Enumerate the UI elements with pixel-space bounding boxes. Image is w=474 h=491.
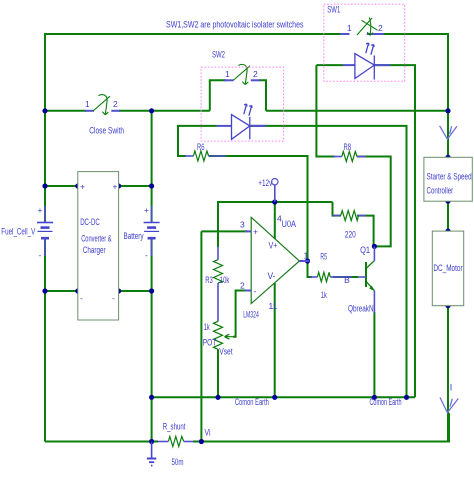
svg-text:1: 1 [225, 69, 230, 79]
ground symbol [147, 442, 156, 466]
photodiode LED of SW1 [343, 43, 390, 80]
node opamp output [305, 258, 310, 263]
transistor Q1 QbreakN [342, 245, 374, 313]
SW2 dashed enclosure [201, 67, 284, 141]
svg-text:SW2: SW2 [212, 50, 225, 60]
wire battery column lower to earth [151, 238, 153, 442]
resistor R6 [185, 142, 226, 161]
svg-text:V+: V+ [269, 241, 278, 251]
svg-text:1k: 1k [204, 322, 210, 332]
resistor R5 [310, 252, 342, 300]
node dcdc in+ [75, 183, 80, 188]
node earth battery column [149, 395, 154, 400]
switch SW2 contact [224, 64, 260, 84]
svg-text:10k: 10k [220, 275, 230, 285]
svg-text:Comon Earth: Comon Earth [235, 397, 269, 407]
wire left rail lower [44, 238, 46, 442]
wire +12v rail [218, 202, 333, 247]
battery Battery [124, 205, 160, 260]
wire R5 base row [333, 276, 358, 278]
wire SW2 LED cathode row [250, 126, 407, 397]
wire Q1 emitter to earth [373, 312, 375, 397]
svg-text:11: 11 [269, 301, 278, 311]
node dcdc out+ [116, 183, 121, 188]
wire right column starter to motor [447, 157, 449, 231]
svg-text:+: + [80, 182, 85, 192]
SW1 dashed enclosure [324, 4, 405, 81]
node earth pin11 [272, 395, 277, 400]
wire SW2 LED anode branch [178, 126, 217, 156]
svg-text:I: I [450, 382, 453, 392]
node Vi at R_shunt [199, 439, 204, 444]
node earth POT [215, 395, 220, 400]
resistor R3 vertical [205, 247, 229, 321]
wire SW1 LED cathode row [374, 65, 415, 397]
wire right column motor to bottom [447, 306, 449, 442]
svg-text:50m: 50m [172, 457, 184, 467]
svg-text:1: 1 [85, 99, 90, 109]
node starter box top [445, 155, 450, 160]
node earth Q1 emitter [372, 395, 377, 400]
wire bottom rail [45, 441, 158, 443]
svg-text:Close Swith: Close Swith [89, 126, 124, 136]
node dcdc out- [116, 288, 121, 293]
wire dc rail bottom segment A [45, 290, 78, 292]
svg-text:QbreakN: QbreakN [348, 303, 374, 313]
wire R6 to opamp output column [209, 156, 312, 277]
wire battery branch vertical [151, 111, 153, 186]
node battery bottom [149, 288, 154, 293]
svg-text:Vset: Vset [219, 347, 233, 357]
wire close-switch row left [45, 110, 86, 112]
switch Close Swith [85, 95, 124, 136]
svg-text:3: 3 [240, 220, 245, 230]
svg-text:Vi: Vi [205, 427, 211, 437]
svg-text:1: 1 [347, 23, 352, 33]
node starter box bottom [445, 199, 450, 204]
svg-text:Q1: Q1 [360, 245, 370, 255]
svg-text:Converter &: Converter & [81, 234, 111, 244]
svg-text:Starter & Speed: Starter & Speed [427, 172, 472, 182]
svg-text:R3: R3 [205, 275, 213, 285]
svg-text:Comon Earth: Comon Earth [370, 397, 402, 407]
wire battery top rail segment B [119, 185, 152, 187]
wire Vi sense column [200, 231, 202, 441]
wire right column above starter [447, 111, 449, 158]
wire common earth rail [152, 396, 415, 398]
svg-text:2: 2 [253, 69, 258, 79]
svg-text:Battery: Battery [124, 231, 144, 241]
wire SW2 left leg [210, 80, 226, 111]
svg-text:B: B [344, 275, 350, 285]
svg-text:Fuel_Cell_V: Fuel_Cell_V [1, 226, 35, 236]
node Q1 collector junction [372, 244, 377, 249]
resistor R_shunt [158, 422, 211, 467]
wire opamp pin11 to earth [274, 283, 276, 397]
wire top rail right segment to right column [384, 34, 448, 111]
wire 220 branch [333, 202, 342, 216]
svg-text:U0A: U0A [282, 219, 297, 229]
svg-text:-: - [39, 250, 42, 260]
svg-text:2: 2 [240, 281, 245, 291]
svg-text:LM324: LM324 [243, 309, 259, 319]
wire SW2 right leg row to right column [266, 110, 448, 112]
svg-text:Controller: Controller [427, 185, 454, 195]
block Starter & Speed Controller [424, 157, 472, 201]
block DC_Motor [432, 231, 463, 306]
wire opamp pin4 stub [274, 202, 276, 239]
svg-text:SW1,SW2 are photovoltaic isola: SW1,SW2 are photovoltaic isolater switch… [166, 20, 304, 30]
svg-text:-: - [80, 293, 83, 303]
wire R8 to Q1 collector column [357, 157, 391, 247]
block DC-DC Converter & Charger [78, 172, 119, 320]
svg-text:DC-DC: DC-DC [80, 217, 100, 227]
svg-text:2: 2 [113, 99, 118, 109]
svg-text:220: 220 [345, 229, 356, 239]
svg-text:+: + [38, 205, 43, 215]
node battery branch junction [149, 108, 154, 113]
svg-text:-: - [112, 293, 115, 303]
node motor bottom [445, 303, 450, 308]
wire opamp pin2 to POT wiper [233, 291, 246, 337]
svg-text:1: 1 [304, 251, 309, 261]
node bottom rail left of R_shunt [149, 439, 154, 444]
wire dc rail bottom segment B [119, 290, 152, 292]
svg-text:2: 2 [378, 23, 383, 33]
node battery top [149, 183, 154, 188]
wire battery top rail segment A [45, 185, 78, 187]
+12v power bubble [258, 178, 278, 202]
svg-text:DC_Motor: DC_Motor [433, 263, 462, 273]
svg-text:+: + [253, 227, 258, 237]
node +12v rail junction [272, 199, 277, 204]
current arrow I bottom right [440, 382, 458, 412]
wire top rail left segment [45, 34, 341, 35]
wire close-switch row to SW2 [119, 110, 210, 112]
resistor 220 [333, 211, 367, 240]
svg-text:-: - [145, 250, 148, 260]
svg-text:+: + [144, 205, 149, 215]
wire left rail upper [44, 34, 46, 222]
node right column top junction [445, 108, 450, 113]
node motor top [445, 229, 450, 234]
wire opamp pin3 row [201, 230, 247, 232]
battery Fuel_Cell_V [1, 205, 53, 260]
svg-text:V-: V- [268, 271, 276, 281]
svg-text:R6: R6 [197, 142, 205, 152]
photodiode LED of SW2 [217, 104, 267, 139]
node dcdc in- [75, 288, 80, 293]
wire POT bottom to earth [217, 349, 219, 397]
node fuel cell bottom [42, 288, 47, 293]
node fuel cell top [42, 183, 47, 188]
svg-text:R8: R8 [344, 142, 352, 152]
wire SW1 LED anode column [316, 65, 335, 156]
node top-left close switch junction [42, 108, 47, 113]
current arrow top right [440, 126, 457, 139]
op-amp U0A LM324 [240, 214, 310, 320]
svg-text:Charger: Charger [83, 245, 106, 255]
wire SW2 right leg [259, 80, 266, 111]
wire battery column upper [151, 186, 153, 222]
wire SW1 LED anode row [316, 64, 343, 66]
wire 220 to collector node [357, 216, 374, 247]
svg-text:+: + [113, 182, 118, 192]
node earth SW2 cathode column [404, 395, 409, 400]
svg-text:R5: R5 [320, 252, 327, 262]
svg-text:1k: 1k [321, 290, 327, 300]
switch SW1 contact [340, 18, 384, 36]
potentiometer POT 1k [203, 321, 236, 356]
resistor R8 [333, 142, 366, 161]
svg-text:-: - [254, 286, 257, 296]
svg-text:+12v: +12v [258, 178, 272, 188]
svg-text:R_shunt: R_shunt [163, 422, 186, 432]
wire bottom rail right of R_shunt [193, 413, 449, 442]
svg-text:POT: POT [203, 337, 217, 347]
svg-text:SW1: SW1 [327, 5, 340, 15]
